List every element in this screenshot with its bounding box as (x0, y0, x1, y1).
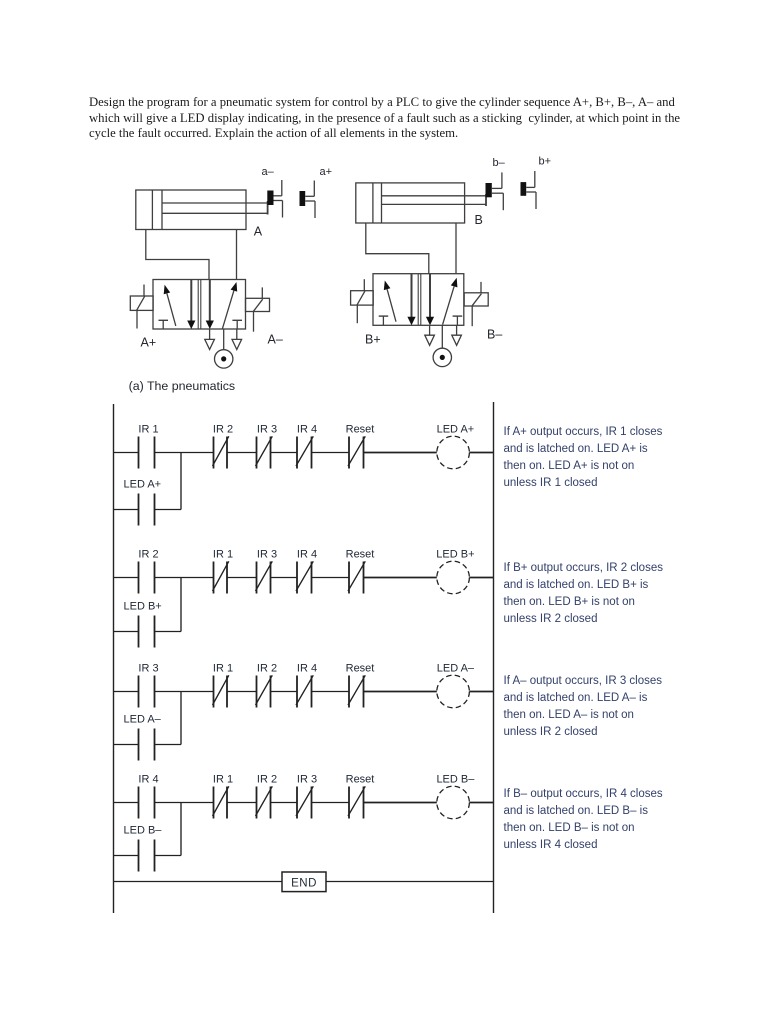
svg-text:Reset: Reset (346, 549, 375, 561)
svg-text:b–: b– (493, 157, 506, 169)
svg-text:END: END (291, 878, 317, 890)
svg-text:LED B+: LED B+ (436, 549, 474, 561)
svg-text:IR 1: IR 1 (213, 549, 233, 561)
svg-text:IR 1: IR 1 (213, 663, 233, 675)
svg-text:IR 3: IR 3 (297, 774, 317, 786)
svg-text:IR 4: IR 4 (297, 549, 317, 561)
svg-text:LED B+: LED B+ (124, 601, 162, 613)
svg-text:B: B (475, 213, 483, 227)
svg-text:IR 2: IR 2 (213, 424, 233, 436)
svg-text:IR 4: IR 4 (297, 663, 317, 675)
svg-text:LED A+: LED A+ (124, 479, 162, 491)
svg-text:IR 2: IR 2 (257, 774, 277, 786)
svg-text:A: A (254, 225, 263, 239)
svg-text:IR 4: IR 4 (297, 424, 317, 436)
svg-text:IR 2: IR 2 (257, 663, 277, 675)
svg-text:IR 1: IR 1 (138, 424, 158, 436)
svg-text:b+: b+ (539, 156, 552, 168)
svg-text:a–: a– (262, 166, 275, 178)
svg-text:B–: B– (487, 328, 502, 342)
svg-text:IR 3: IR 3 (257, 424, 277, 436)
svg-text:LED B–: LED B– (436, 774, 475, 786)
svg-text:LED A–: LED A– (437, 663, 475, 675)
svg-text:IR 4: IR 4 (138, 774, 158, 786)
svg-text:LED B–: LED B– (124, 825, 163, 837)
svg-text:B+: B+ (365, 333, 381, 347)
svg-text:LED A–: LED A– (124, 714, 162, 726)
svg-text:a+: a+ (320, 166, 333, 178)
svg-text:IR 2: IR 2 (138, 549, 158, 561)
svg-text:IR 3: IR 3 (138, 663, 158, 675)
svg-text:Reset: Reset (346, 663, 375, 675)
svg-text:Reset: Reset (346, 424, 375, 436)
svg-text:IR 3: IR 3 (257, 549, 277, 561)
svg-text:IR 1: IR 1 (213, 774, 233, 786)
svg-text:A–: A– (268, 333, 283, 347)
svg-text:LED A+: LED A+ (437, 424, 475, 436)
svg-text:Reset: Reset (346, 774, 375, 786)
svg-text:A+: A+ (141, 336, 157, 350)
